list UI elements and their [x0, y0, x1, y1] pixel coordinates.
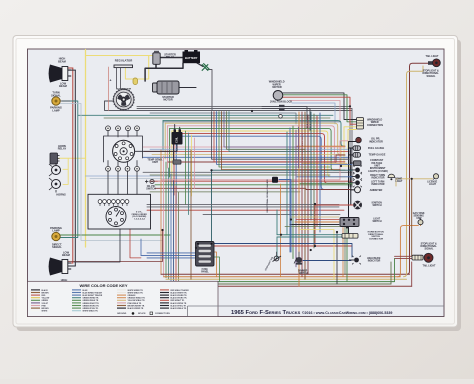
svg-text:ALTERNATOR: ALTERNATOR	[116, 88, 131, 91]
svg-text:TAIL LIGHT: TAIL LIGHT	[426, 55, 439, 58]
svg-text:WHITE W/BLK TR.: WHITE W/BLK TR.	[83, 311, 99, 313]
wire column coil 1	[185, 131, 187, 205]
wire fuse right orange	[214, 252, 217, 277]
wire dome license	[396, 178, 433, 180]
wire dome drop	[395, 179, 397, 186]
wire pink dash feed	[290, 101, 340, 122]
wire ammeter feed	[306, 189, 351, 191]
wire gauge bus 2	[350, 148, 352, 205]
battery	[183, 50, 201, 63]
wire red regulator feed	[108, 67, 110, 111]
ignition switch	[353, 201, 362, 210]
svg-text:LEFT TURN INDICATOR: LEFT TURN INDICATOR	[371, 180, 385, 186]
wire orange flasher drop	[280, 184, 282, 277]
wire yellow horn jumpers	[63, 158, 68, 184]
svg-text:ORANGE W/BLK TR.: ORANGE W/BLK TR.	[128, 297, 146, 300]
ignition coil	[172, 129, 183, 144]
wire column L 4	[168, 168, 170, 279]
wire switch zone a	[290, 216, 339, 218]
svg-text:CONNECTORS: CONNECTORS	[155, 313, 170, 315]
fuel gauge	[349, 146, 361, 151]
license light	[433, 174, 439, 180]
wire gray run 1	[137, 106, 350, 108]
wire column mid 5	[222, 112, 341, 170]
wire column mid 4	[219, 112, 330, 168]
svg-text:BLACK W/WHT TR.: BLACK W/WHT TR.	[171, 291, 188, 294]
wire fuel gauge feed	[297, 145, 345, 147]
headlight left (high/low beam)	[49, 258, 72, 276]
wire column R 8	[307, 115, 309, 274]
svg-text:ORANGE: ORANGE	[128, 294, 137, 297]
wire column mid 1	[212, 112, 350, 160]
wire light switch feed3	[290, 224, 339, 226]
temp sending unit	[173, 160, 181, 164]
wire column R 3	[292, 126, 294, 259]
wire yellow boundary	[85, 50, 87, 248]
horn upper	[49, 163, 61, 176]
svg-text:BLUE W/WHT TRACER: BLUE W/WHT TRACER	[83, 294, 103, 297]
wire turnsignal stub	[60, 100, 70, 102]
wire dash feed 7	[176, 136, 345, 189]
wire column mid 3	[217, 112, 353, 165]
wire fuse right green	[214, 257, 220, 282]
svg-text:WHITE: WHITE	[42, 311, 49, 313]
wire fuse blue feeds	[141, 253, 196, 258]
dome light	[388, 174, 395, 180]
wire dash feed 3	[167, 126, 345, 164]
wire column L 7	[175, 186, 177, 285]
spark plug terminals row 1	[106, 126, 140, 131]
svg-text:BLACK W/YEL TR.: BLACK W/YEL TR.	[171, 304, 187, 307]
fuse panel	[196, 242, 215, 267]
wire lightblue band c	[60, 104, 163, 241]
alternator	[113, 88, 134, 110]
wire column coil 3	[191, 135, 193, 196]
wire lower tail leads	[395, 256, 413, 258]
right turn indicator	[353, 172, 362, 181]
svg-text:BLACK: BLACK	[42, 289, 49, 292]
engine firing order box	[88, 194, 151, 229]
wire gray run 2	[137, 108, 352, 110]
svg-text:MOTOR: MOTOR	[163, 99, 172, 102]
wire gauge bus 1	[348, 142, 350, 191]
wire wiper black	[283, 93, 357, 120]
wire mid run 4	[152, 154, 345, 156]
svg-text:FUEL GAUGE: FUEL GAUGE	[368, 147, 385, 150]
directional signal flasher	[272, 177, 278, 183]
stoplight switch	[273, 256, 282, 262]
wire ign box stems	[108, 171, 137, 194]
svg-text:INSTRUMENT LIGHTS (3 USED): INSTRUMENT LIGHTS (3 USED)	[368, 167, 388, 173]
ammeter	[350, 187, 361, 193]
wire olive long run	[104, 117, 330, 119]
firing order rotor circle	[106, 207, 126, 227]
wire coil drop	[173, 145, 175, 163]
wire relay to starter motor	[145, 64, 156, 81]
wire column R 4	[295, 130, 297, 267]
horn button connector	[342, 234, 358, 239]
wire rear riser tan	[404, 66, 424, 277]
wire column coil 4	[194, 138, 196, 188]
svg-text:RIGHT TURN INDICATOR: RIGHT TURN INDICATOR	[370, 174, 385, 180]
wire gauge bus 3	[348, 190, 350, 234]
wire floor olive turn	[390, 262, 392, 284]
wire column R 2	[289, 128, 291, 252]
wire light switch feed2	[295, 221, 339, 223]
wire wiper red	[283, 97, 357, 124]
svg-text:SWITCH: SWITCH	[146, 188, 156, 191]
wire brown fuse vertical	[190, 150, 192, 279]
wire maroon cab run	[60, 230, 163, 262]
wire mid run 2	[150, 148, 352, 150]
distributor	[113, 140, 135, 162]
svg-text:SIGNAL: SIGNAL	[52, 245, 62, 249]
svg-text:BLUE W/RED TRACER: BLUE W/RED TRACER	[83, 291, 103, 294]
wire rear riser maroon	[407, 63, 433, 274]
light switch	[340, 218, 359, 227]
wire lightblue dash feed	[292, 103, 335, 124]
high beam indicator	[349, 256, 361, 265]
wire temp sender run	[181, 155, 345, 162]
svg-text:AMMETER: AMMETER	[370, 189, 383, 192]
wire light switch drops	[342, 228, 344, 277]
wire battery to relay	[160, 57, 183, 59]
wire pink oil run	[162, 141, 348, 180]
wire dimmer box path	[207, 244, 352, 258]
wire fuse blue drop	[140, 239, 142, 255]
svg-text:REGULATOR: REGULATOR	[115, 59, 132, 63]
wire ignition red	[315, 204, 354, 206]
wire column L 3	[165, 162, 167, 278]
wire dash feed 1	[163, 121, 345, 147]
dimmer switch	[294, 257, 302, 265]
wire dash feed drop 7	[175, 136, 177, 204]
wire column R 7	[304, 112, 306, 279]
wire column R 12	[319, 113, 321, 232]
constant voltage unit	[350, 161, 361, 166]
headlight right (high/low beam)	[49, 65, 72, 83]
windshield wiper motor	[273, 91, 283, 101]
svg-text:SPLICE: SPLICE	[138, 313, 146, 315]
wire floor run 2	[164, 276, 401, 278]
parking lamp front left	[52, 232, 60, 240]
svg-text:JUNCTION BLOCK: JUNCTION BLOCK	[270, 100, 293, 103]
wire switch zone b	[285, 227, 345, 275]
wire yellow to starter relay	[86, 56, 154, 80]
wire gauge stubs	[349, 142, 356, 190]
svg-text:BATTERY: BATTERY	[185, 56, 198, 60]
wire dash feed 5	[172, 131, 345, 177]
svg-text:TAIL LIGHT: TAIL LIGHT	[423, 264, 436, 267]
wire mid run 5	[143, 156, 349, 158]
svg-text:DIMMER SWITCH: DIMMER SWITCH	[298, 271, 308, 276]
wire slate run a	[150, 113, 296, 124]
wire low run 3	[155, 187, 306, 189]
wire instrument light long	[212, 170, 353, 252]
wire floor run 6	[174, 285, 412, 287]
wire column mid 7	[227, 112, 306, 150]
wire column coil 2	[188, 133, 190, 215]
wire dash feed drop 5	[171, 131, 173, 186]
wire stoplight drop	[277, 252, 300, 257]
wire junction right taps	[285, 107, 311, 131]
wire red to right headlight	[66, 67, 73, 69]
windshield wiper connection	[357, 118, 364, 130]
parking lamp front right	[52, 97, 60, 105]
wire low run 4	[150, 191, 300, 193]
wire switch zone c	[300, 230, 334, 280]
wire wiper green	[283, 95, 357, 122]
wire column R 5	[298, 112, 300, 286]
wire column R 6	[301, 112, 303, 277]
junction dots	[161, 105, 412, 251]
wire dash feed 2	[165, 123, 345, 155]
wire dash feed drop 1	[162, 121, 164, 150]
wire starter motor lead	[179, 87, 196, 89]
wire column L 6	[173, 180, 175, 283]
wire cvu feed	[302, 162, 347, 164]
wire x drop	[207, 70, 213, 111]
wire yellow drop	[341, 131, 350, 166]
wire red headlight main	[72, 68, 74, 263]
svg-text:WIRE COLOR CODE KEY: WIRE COLOR CODE KEY	[79, 283, 127, 288]
wire alternator ground loop	[105, 101, 353, 110]
wire box bottom drop 2	[130, 229, 141, 258]
wire dash feed 6	[174, 134, 345, 184]
wire temp unit stub	[168, 161, 173, 163]
diagram frame	[28, 49, 445, 317]
tail light left	[412, 253, 433, 262]
wire battery ground lead	[197, 63, 203, 67]
horn relay	[50, 153, 60, 164]
wire mid run 6	[143, 171, 352, 173]
wire battery down lead	[156, 63, 183, 68]
wire column L 2	[163, 156, 165, 276]
svg-text:BLACK W/PNK TR.: BLACK W/PNK TR.	[171, 302, 188, 305]
wire box bottom drop 1	[74, 229, 120, 262]
wire column R 9	[310, 112, 312, 220]
wire floor run 4	[169, 281, 395, 283]
wire dist lower pins	[108, 161, 137, 167]
svg-text:INSTRUMENT PANEL LIGHTS: INSTRUMENT PANEL LIGHTS	[301, 132, 304, 161]
voltage regulator	[114, 65, 133, 68]
wire column mid 8	[229, 112, 310, 152]
svg-text:BLACK W/BLU TR.: BLACK W/BLU TR.	[171, 307, 188, 310]
spark plug terminals row 2	[106, 166, 140, 171]
wire light switch feeds	[296, 219, 339, 221]
svg-text:UNIT: UNIT	[152, 161, 158, 164]
wire plug drops	[108, 131, 137, 137]
svg-text:BEAM: BEAM	[58, 59, 66, 63]
svg-text:RED W/BLK TRACER: RED W/BLK TRACER	[171, 289, 190, 292]
left turn indicator	[353, 178, 362, 187]
svg-text:BLACK W/GRN TR.: BLACK W/GRN TR.	[171, 294, 188, 297]
wire dash feed drop 4	[169, 128, 171, 177]
wire column R 10	[313, 114, 315, 248]
wire plug rail	[104, 136, 143, 162]
svg-text:IGNITION SWITCH: IGNITION SWITCH	[372, 202, 383, 207]
wire dash feed drop 6	[173, 134, 175, 195]
wire ignition red drop	[214, 204, 353, 246]
starter relay	[153, 51, 160, 65]
junction block	[279, 105, 285, 118]
wire red to left headlight	[60, 262, 73, 264]
wire red box run	[147, 209, 344, 211]
wire column mid 2	[214, 112, 345, 162]
svg-text:RELAY: RELAY	[58, 147, 67, 151]
svg-text:RELAY: RELAY	[166, 56, 175, 59]
wire black to left headlight	[60, 265, 75, 267]
wire column mid 6	[224, 112, 300, 148]
wire coil to dist	[135, 145, 177, 152]
svg-text:LIGHT SWITCH: LIGHT SWITCH	[372, 218, 381, 223]
wire rt indicator feed	[297, 176, 352, 178]
wire column L 1	[160, 150, 162, 274]
wire dash feed 4	[170, 128, 345, 170]
ground symbol (battery)	[202, 63, 210, 70]
oil pressure indicator	[349, 137, 361, 143]
wire horn btn teal	[277, 235, 342, 237]
wire mid run 3	[144, 151, 349, 153]
wire gray switch pair	[147, 205, 339, 207]
wire column L 8	[178, 192, 180, 286]
wire floor run 3	[166, 278, 407, 280]
wire dimmer highbeam	[303, 260, 351, 262]
oil pressure switch	[145, 179, 154, 183]
wire license brown	[411, 179, 413, 256]
wire low run 2	[155, 184, 352, 186]
gas tank sending unit	[418, 218, 423, 225]
wire dash feed drop 2	[164, 123, 166, 159]
wire floor dkred turn	[411, 262, 413, 286]
wire slate run b	[163, 121, 340, 123]
wire lt indicator feed	[300, 182, 352, 184]
temp gauge	[349, 153, 361, 158]
wire teal parking feed	[56, 101, 78, 238]
wire floor run 5	[171, 283, 391, 285]
svg-text:TEMP GAUGE: TEMP GAUGE	[369, 154, 386, 157]
wire column R 11	[316, 116, 318, 226]
svg-text:GROUND: GROUND	[117, 313, 127, 315]
wire regulator yellow drop	[125, 67, 133, 79]
svg-text:HIGH BEAM INDICATOR: HIGH BEAM INDICATOR	[367, 257, 381, 263]
tail light right	[428, 59, 440, 67]
svg-text:+: +	[110, 79, 112, 83]
svg-text:FUSE PANEL: FUSE PANEL	[201, 269, 209, 274]
svg-text:DIRECTIONAL SIGNAL FLASHER: DIRECTIONAL SIGNAL FLASHER	[266, 179, 269, 212]
title strip	[188, 306, 445, 317]
wire column L 5	[170, 174, 172, 281]
horn lower	[49, 178, 61, 193]
wire gray ammeter drop 1	[349, 107, 351, 187]
wire mid run 1	[143, 146, 345, 148]
legend: wire color code key	[28, 281, 219, 316]
wire lightblue band a	[86, 175, 212, 177]
wire dark box run	[203, 214, 340, 216]
wire black to right headlight	[66, 69, 75, 71]
wire light switch drop2	[346, 228, 348, 282]
wire green parking feed	[56, 234, 170, 236]
wire teal charge run	[78, 114, 333, 116]
wire yellow horn feed	[59, 157, 86, 159]
wire gas tank orange	[397, 225, 420, 277]
wire light switch drop3	[336, 232, 338, 284]
svg-text:BLACK W/RED TR.: BLACK W/RED TR.	[128, 307, 145, 310]
svg-text:DOME LIGHT: DOME LIGHT	[395, 178, 403, 183]
svg-text:COIL: COIL	[176, 137, 179, 143]
wire horn btn teal drop	[276, 210, 278, 258]
svg-text:BLACK W/ORG TR.: BLACK W/ORG TR.	[171, 297, 188, 300]
wire yellow wiper pair	[344, 127, 357, 164]
svg-text:HORNS: HORNS	[56, 193, 66, 197]
svg-text:BEAM: BEAM	[62, 253, 70, 257]
starter motor	[153, 81, 180, 94]
svg-text:BEAM: BEAM	[59, 84, 67, 88]
wire mid run 7	[150, 174, 330, 176]
wire column R 1	[286, 132, 288, 235]
wire instr vert bar	[298, 127, 300, 168]
wire black headlight main	[74, 70, 76, 266]
wire floor run 1	[161, 273, 410, 275]
wire flasher loop	[279, 180, 291, 253]
wire lower tail riser	[394, 259, 396, 282]
wire low run 1	[150, 180, 352, 182]
wire coil top leads	[175, 125, 180, 130]
yellow resistor connector	[133, 78, 138, 85]
wire oil switch stub	[158, 180, 162, 181]
wire dash feed drop 3	[166, 126, 168, 168]
wire lightblue band b	[90, 177, 212, 179]
wire regulator legs	[117, 67, 121, 89]
wire junction left taps	[262, 107, 279, 109]
svg-text:LAMP: LAMP	[52, 109, 60, 113]
instrument lights	[353, 166, 362, 175]
wire gray ammeter drop 2	[351, 109, 353, 187]
firing order terminals	[98, 200, 129, 206]
